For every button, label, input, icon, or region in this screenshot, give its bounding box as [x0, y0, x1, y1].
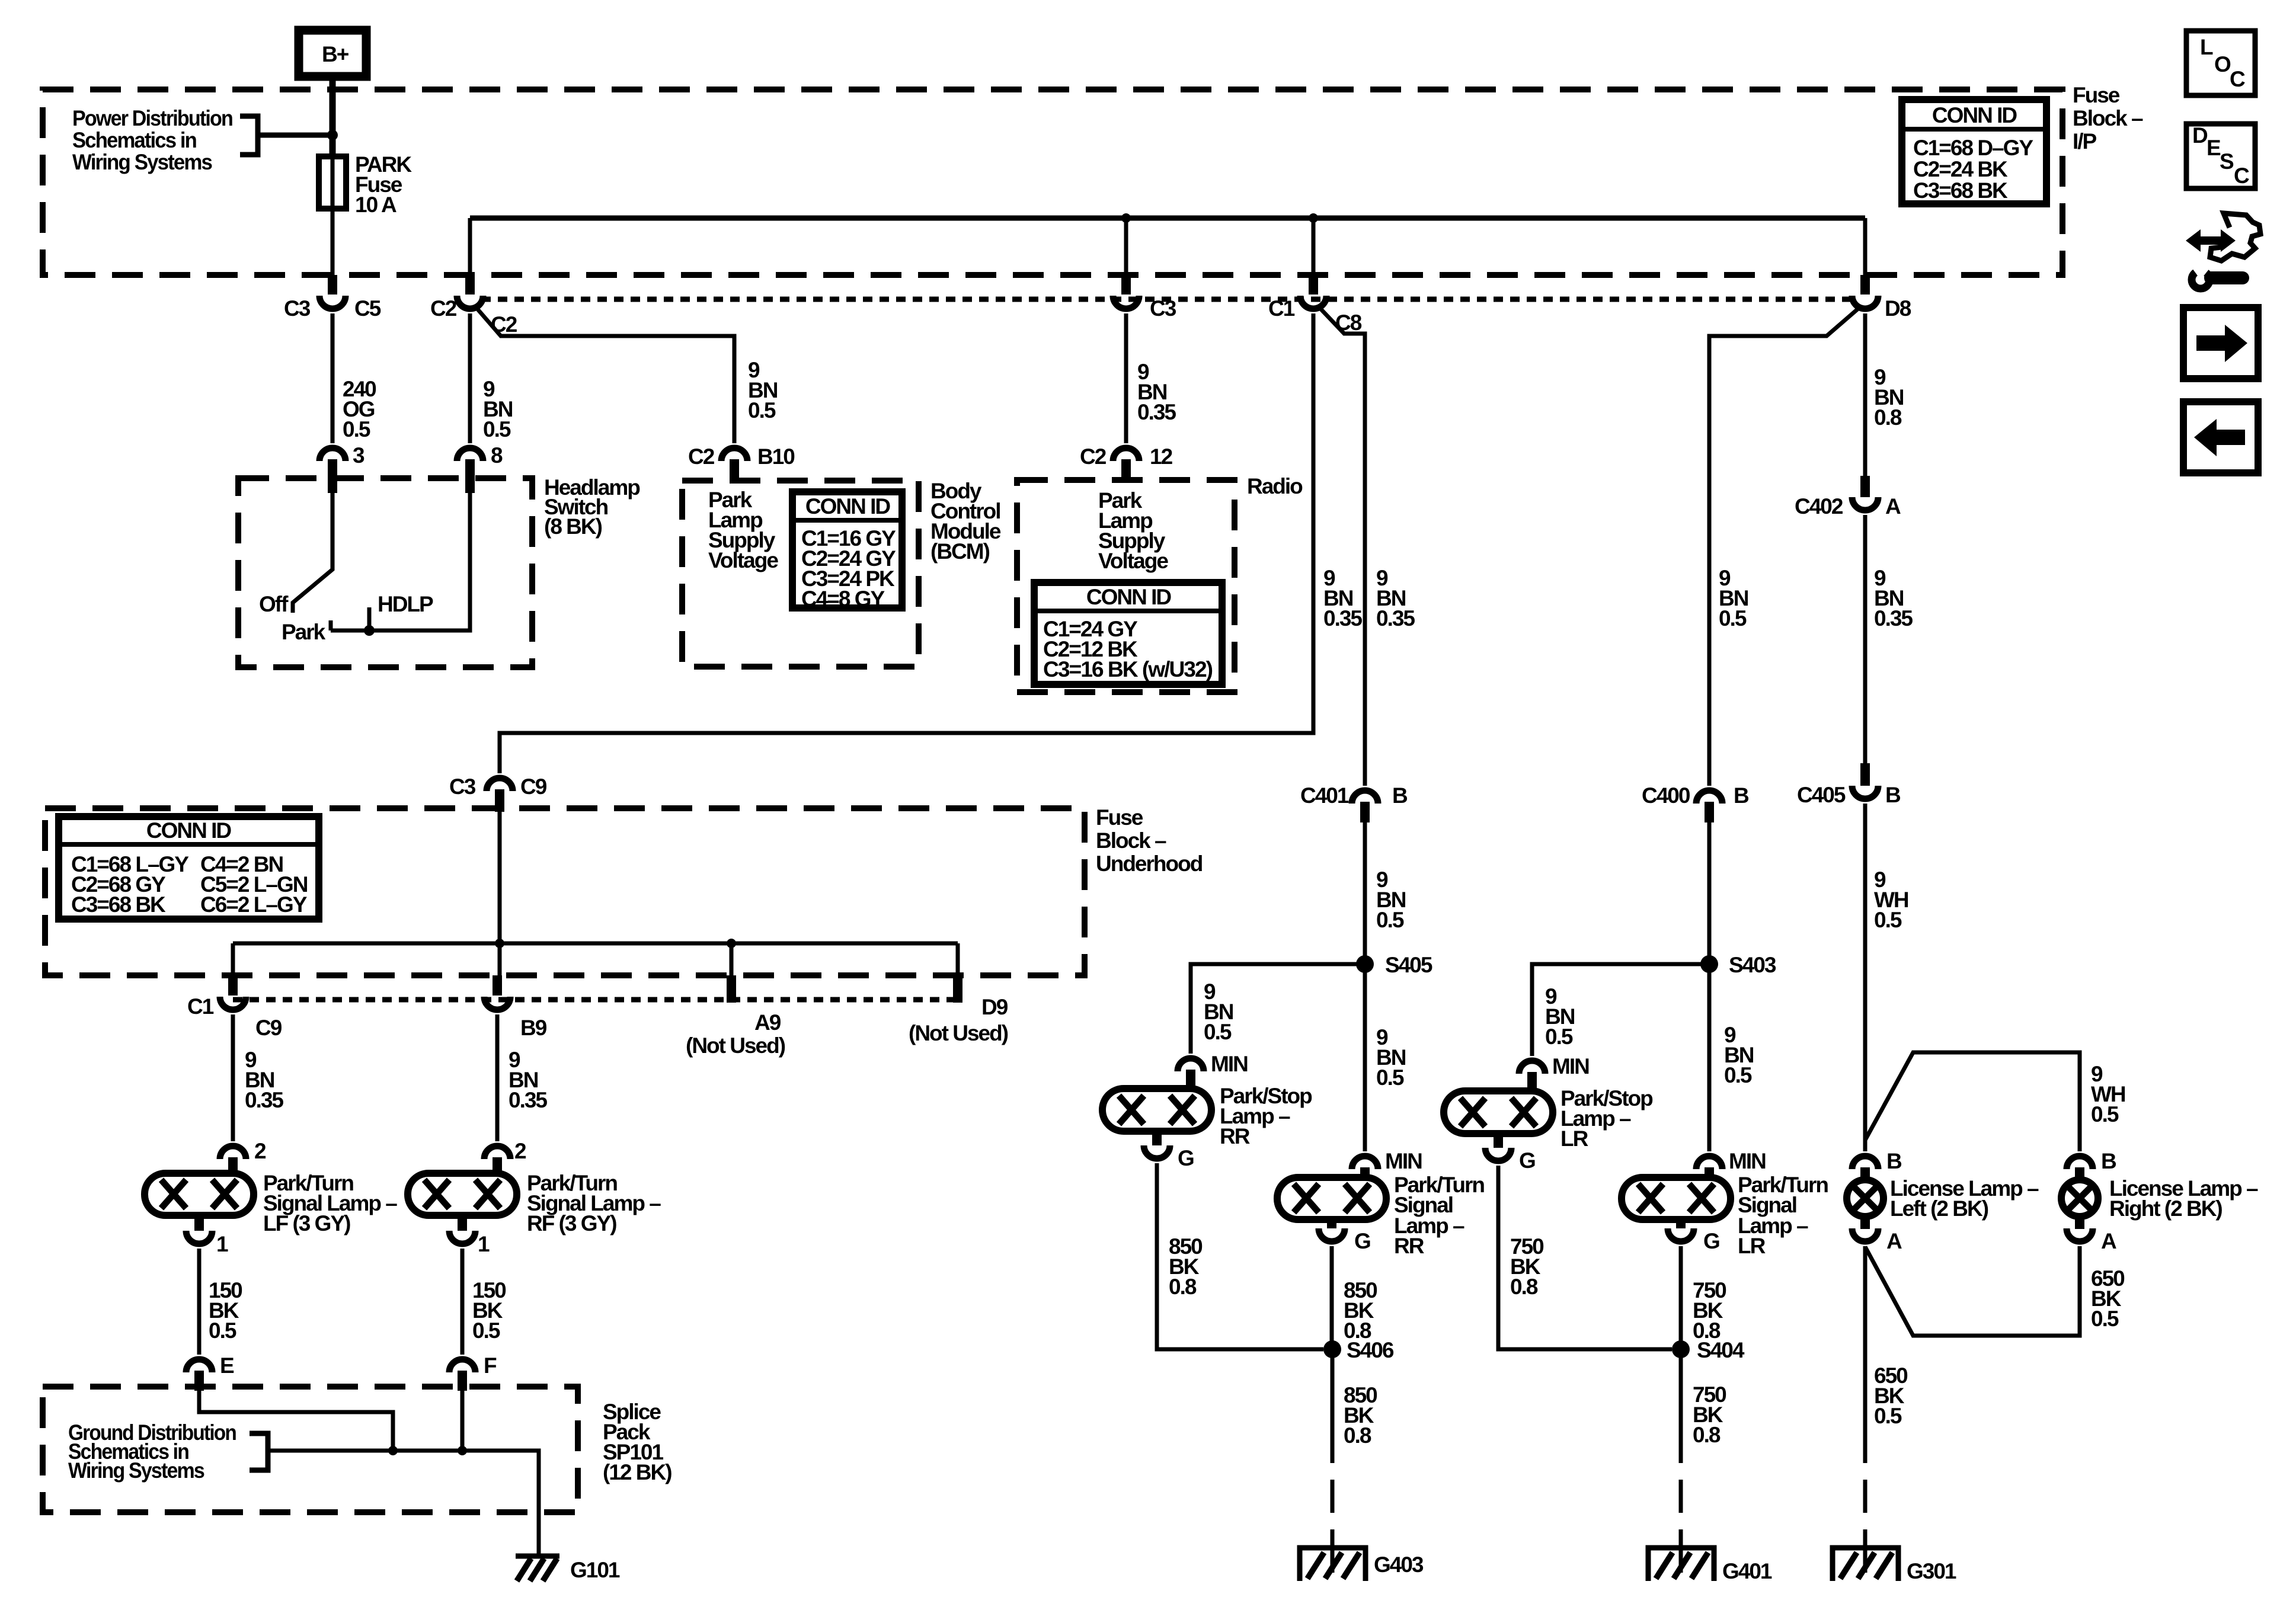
- connector D8 rear feed: [1852, 275, 1911, 321]
- connector B license right: [2067, 1149, 2116, 1182]
- svg-text:Radio: Radio: [1247, 474, 1303, 498]
- value label 9 BN 0.5 BCM branch: [748, 358, 778, 422]
- value label 850 BK 0.8 RR turn: [1344, 1278, 1377, 1343]
- svg-text:0.35: 0.35: [1137, 400, 1176, 424]
- value label 9 BN 0.35 C402: [1874, 566, 1913, 630]
- wire 9 BN 0.35 C3 to radio: [1124, 313, 1128, 443]
- wire D8 branch to C400: [1709, 309, 1857, 786]
- connector C2 headlamp switch feed: [430, 275, 483, 321]
- svg-text:0.35: 0.35: [245, 1088, 283, 1112]
- lamp Park/Turn Signal RF: [408, 1173, 517, 1231]
- svg-text:C: C: [2230, 67, 2245, 91]
- svg-text:0.35: 0.35: [1323, 606, 1362, 630]
- svg-text:C6=2 L–GY: C6=2 L–GY: [200, 892, 308, 917]
- svg-text:Wiring Systems: Wiring Systems: [68, 1458, 204, 1483]
- svg-text:0.5: 0.5: [1724, 1063, 1752, 1087]
- pin label C8: [1335, 311, 1362, 335]
- wire 150 BK 0.5 RF: [461, 1249, 465, 1355]
- label Splice Pack SP101 (12 BK): [603, 1400, 671, 1484]
- wire 9 BN 0.35 to RF lamp: [495, 1014, 500, 1141]
- label Off: [259, 592, 289, 616]
- wire 750 BK 0.8 LR turn to S404: [1679, 1246, 1683, 1349]
- label Park/Turn Signal Lamp RR: [1394, 1173, 1484, 1258]
- svg-text:0.5: 0.5: [2091, 1102, 2119, 1126]
- svg-text:A: A: [2101, 1229, 2116, 1253]
- svg-text:CONN ID: CONN ID: [1086, 585, 1172, 609]
- value label 9 BN 0.5 LR stop: [1545, 984, 1575, 1049]
- wire 240 OG 0.5 fuse to headlamp switch pin 3: [331, 313, 335, 443]
- connector C401/B: [1300, 783, 1408, 822]
- splice pack dashed box: [43, 1387, 578, 1512]
- svg-text:G: G: [1703, 1229, 1719, 1253]
- svg-text:O: O: [2214, 52, 2231, 76]
- value label 240 OG 0.5: [343, 377, 376, 441]
- connector G RR park/turn: [1319, 1228, 1370, 1253]
- switch contact HDLP: [367, 607, 372, 630]
- wire D8 down to C402: [1863, 313, 1868, 477]
- wire 9 BN 0.5 C2 to headlamp switch pin 8: [468, 313, 472, 443]
- connector C3/C9 underhood feed: [449, 774, 547, 812]
- svg-text:0.35: 0.35: [1376, 606, 1415, 630]
- value label 9 BN 0.5: [483, 377, 513, 441]
- svg-text:C2: C2: [430, 296, 457, 321]
- connector G LR park/stop: [1485, 1148, 1535, 1173]
- svg-text:(BCM): (BCM): [930, 539, 990, 564]
- connector MIN RR park/stop: [1178, 1052, 1248, 1089]
- label Park Lamp Supply Voltage radio: [1098, 488, 1168, 573]
- label Fuse Block - Underhood: [1096, 805, 1203, 876]
- svg-text:C2: C2: [491, 312, 517, 337]
- svg-text:S403: S403: [1729, 953, 1776, 977]
- connector pin 3 headlamp switch: [319, 443, 364, 493]
- label Body Control Module (BCM): [930, 479, 1001, 564]
- svg-text:C1: C1: [187, 994, 214, 1019]
- value label 9 BN 0.35 right: [1376, 566, 1415, 630]
- connector C2/B10 BCM: [688, 444, 795, 483]
- label Park/Stop Lamp LR: [1560, 1086, 1653, 1151]
- pin label C2 BCM branch: [491, 312, 517, 337]
- connector F splice pack: [449, 1353, 497, 1391]
- svg-text:RF (3 GY): RF (3 GY): [527, 1211, 616, 1235]
- label HDLP: [378, 592, 433, 616]
- label License Lamp Right: [2109, 1176, 2258, 1221]
- connector C1/C9 underhood LF out: [187, 975, 282, 1040]
- wire C405 to license lamps: [1863, 804, 1868, 1151]
- connector G LR park/turn: [1668, 1228, 1719, 1253]
- value label 150 BK 0.5 LF: [209, 1278, 242, 1343]
- svg-text:RR: RR: [1220, 1124, 1250, 1148]
- CONN ID table BCM: [792, 492, 902, 611]
- connector B license left: [1852, 1149, 1902, 1182]
- svg-text:C3: C3: [1150, 296, 1176, 321]
- svg-text:(Not Used): (Not Used): [686, 1033, 785, 1058]
- svg-text:C3=16 BK (w/U32): C3=16 BK (w/U32): [1043, 657, 1213, 681]
- BCM dashed box: [682, 481, 919, 667]
- svg-text:MIN: MIN: [1729, 1149, 1766, 1173]
- value label 9 BN 0.5 RR stop: [1204, 980, 1233, 1044]
- svg-text:C4=8 GY: C4=8 GY: [801, 587, 885, 611]
- svg-text:0.5: 0.5: [472, 1318, 500, 1343]
- svg-text:CONN ID: CONN ID: [146, 818, 232, 843]
- wire 850 BK 0.8 RR turn to S406: [1330, 1246, 1334, 1349]
- radio dashed box: [1017, 480, 1235, 692]
- svg-text:8: 8: [491, 443, 503, 468]
- connector D9 not used: [909, 975, 1008, 1045]
- lamp License Left: [1847, 1180, 1884, 1229]
- svg-text:(8 BK): (8 BK): [544, 514, 602, 539]
- svg-text:C2: C2: [1080, 444, 1107, 469]
- svg-text:B: B: [1734, 783, 1749, 808]
- svg-text:0.8: 0.8: [1693, 1423, 1721, 1447]
- wire callout bracket ground distribution: [250, 1433, 268, 1470]
- svg-text:MIN: MIN: [1552, 1054, 1589, 1078]
- label Park/Turn Signal Lamp LF: [263, 1171, 397, 1235]
- svg-text:0.8: 0.8: [1874, 405, 1902, 430]
- connector pin 2 RF lamp: [484, 1139, 526, 1175]
- node junction on B+ wire: [327, 130, 338, 140]
- icon box LOC: [2186, 31, 2255, 95]
- svg-text:Block –: Block –: [1096, 828, 1166, 853]
- svg-text:S404: S404: [1697, 1338, 1745, 1362]
- ground G401: [1648, 1548, 1772, 1583]
- svg-text:Wiring Systems: Wiring Systems: [72, 150, 212, 174]
- connector A license left: [1852, 1228, 1902, 1253]
- node splice S405: [1356, 953, 1432, 977]
- svg-text:CONN ID: CONN ID: [1932, 103, 2017, 127]
- headlamp switch dashed box: [238, 478, 532, 667]
- svg-text:0.5: 0.5: [1874, 1404, 1902, 1428]
- wire C8 branch down to C401: [1321, 309, 1365, 786]
- svg-text:E: E: [2207, 136, 2221, 160]
- lamp Park/Stop LR: [1444, 1091, 1553, 1148]
- wire 150 BK 0.5 LF: [197, 1249, 202, 1355]
- svg-text:LR: LR: [1560, 1126, 1588, 1151]
- svg-text:D: D: [2192, 123, 2208, 148]
- fuse block underhood dashed box: [45, 808, 1085, 975]
- value label 850 BK 0.8 RR stop: [1169, 1234, 1203, 1299]
- connector E splice pack: [186, 1353, 234, 1391]
- svg-text:C2=24 BK: C2=24 BK: [1913, 157, 2008, 181]
- value label 650 BK 0.5 ground: [1874, 1363, 1908, 1428]
- label Power Distribution Schematics in Wiring Systems: [72, 106, 232, 174]
- svg-text:C3: C3: [449, 774, 476, 799]
- node splice S404: [1672, 1338, 1745, 1362]
- svg-text:B: B: [1885, 783, 1901, 807]
- value label 750 BK 0.8 LR turn: [1693, 1278, 1726, 1343]
- node bus junction above radio feed: [1121, 213, 1131, 223]
- icon box DESC: [2186, 123, 2255, 188]
- switch arm pin 3 to Off: [293, 493, 332, 613]
- svg-text:Off: Off: [259, 592, 289, 616]
- svg-text:B10: B10: [757, 444, 795, 469]
- value label 9 BN 0.5 RR turn: [1376, 1025, 1406, 1090]
- svg-text:G101: G101: [570, 1558, 620, 1582]
- connector G RR park/stop: [1144, 1145, 1194, 1170]
- value label 9 WH 0.5 right: [2091, 1062, 2125, 1126]
- label License Lamp Left: [1890, 1176, 2039, 1221]
- svg-text:Right (2 BK): Right (2 BK): [2109, 1196, 2222, 1221]
- dotted harness line underhood: [233, 997, 960, 1003]
- connector B9 underhood RF out: [484, 975, 547, 1040]
- node bus junction above BCM feed: [1309, 213, 1318, 223]
- svg-text:0.8: 0.8: [1169, 1275, 1197, 1299]
- label Ground Distribution Schematics in Wiring Systems: [68, 1420, 236, 1483]
- value label 850 BK 0.8 ground: [1344, 1383, 1377, 1448]
- wire S404 to G401: [1679, 1349, 1683, 1573]
- svg-text:G401: G401: [1722, 1559, 1772, 1583]
- value label 9 WH 0.5: [1874, 868, 1908, 932]
- connector C405/B: [1797, 763, 1901, 807]
- label Park/Turn Signal Lamp LR: [1738, 1173, 1828, 1258]
- svg-text:LR: LR: [1738, 1234, 1766, 1258]
- svg-text:0.5: 0.5: [1204, 1020, 1232, 1044]
- wire S405 to RR park/stop lamp: [1191, 964, 1365, 1054]
- svg-text:B: B: [1392, 783, 1408, 808]
- wire C1 down to underhood fuse block: [500, 313, 1313, 773]
- svg-text:C405: C405: [1797, 783, 1846, 807]
- svg-text:C2: C2: [688, 444, 715, 469]
- connector C3/C5 fuse output: [284, 275, 381, 321]
- wire S406 to G403: [1331, 1349, 1335, 1573]
- value label 9 BN 0.5 LR turn: [1724, 1023, 1754, 1087]
- wire ground bus to G101: [268, 1451, 539, 1556]
- connector A9 not used: [686, 975, 785, 1058]
- node junction E ground bus: [388, 1446, 398, 1455]
- wire bus in fuse block: [470, 218, 1865, 275]
- svg-text:B: B: [2101, 1149, 2116, 1173]
- connector A license right: [2067, 1228, 2116, 1253]
- connector C1 BCM/C8 feed: [1268, 275, 1326, 321]
- lamp Park/Turn Signal RR: [1277, 1177, 1386, 1228]
- lamp Park/Stop RR: [1102, 1089, 1211, 1145]
- svg-text:L: L: [2200, 35, 2213, 59]
- svg-text:1: 1: [216, 1232, 228, 1256]
- svg-text:C9: C9: [520, 774, 547, 799]
- svg-text:C3=68 BK: C3=68 BK: [71, 892, 166, 917]
- wire Park contact to pin 8: [331, 493, 470, 630]
- wire C401 to S405: [1363, 822, 1367, 1151]
- svg-text:0.8: 0.8: [1510, 1275, 1538, 1299]
- svg-text:CONN ID: CONN ID: [805, 494, 891, 518]
- svg-text:MIN: MIN: [1211, 1052, 1248, 1076]
- node junction S at C9 column: [495, 939, 504, 948]
- label Headlamp Switch (8 BK): [544, 475, 640, 539]
- icon service wrench with arrows: [2186, 213, 2260, 289]
- svg-text:0.35: 0.35: [509, 1088, 547, 1112]
- label Park/Turn Signal Lamp RF: [527, 1171, 661, 1235]
- label Park: [282, 620, 326, 644]
- svg-text:Left (2 BK): Left (2 BK): [1890, 1196, 1988, 1221]
- svg-text:(Not Used): (Not Used): [909, 1021, 1008, 1045]
- svg-text:C401: C401: [1300, 783, 1349, 808]
- wire underhood horizontal distribution: [233, 943, 958, 975]
- value label 750 BK 0.8 LR stop: [1510, 1234, 1544, 1299]
- connector pin 2 LF lamp: [220, 1139, 266, 1175]
- value label 9 BN 0.35 RF: [509, 1048, 547, 1112]
- svg-text:B: B: [1886, 1149, 1902, 1173]
- svg-text:0.5: 0.5: [343, 417, 370, 441]
- svg-text:Fuse: Fuse: [1096, 805, 1143, 830]
- svg-text:F: F: [484, 1353, 497, 1378]
- svg-text:RR: RR: [1394, 1234, 1424, 1258]
- wire C400 to S403: [1707, 822, 1712, 1151]
- svg-text:Park: Park: [282, 620, 326, 644]
- wire license left to G301: [1863, 1246, 1868, 1573]
- svg-text:C3: C3: [284, 296, 311, 321]
- svg-text:2: 2: [514, 1139, 526, 1163]
- svg-text:0.5: 0.5: [1545, 1025, 1573, 1049]
- svg-text:C5: C5: [354, 296, 381, 321]
- svg-text:G: G: [1178, 1146, 1194, 1170]
- icon box next arrow: [2183, 308, 2258, 379]
- svg-text:Block –: Block –: [2073, 106, 2143, 130]
- svg-text:10 A: 10 A: [355, 193, 396, 217]
- connector pin 1 RF lamp: [449, 1231, 490, 1256]
- value label 9 BN 0.5 C401: [1376, 868, 1406, 932]
- svg-text:G301: G301: [1907, 1559, 1956, 1583]
- svg-text:D9: D9: [981, 995, 1008, 1019]
- svg-text:G: G: [1354, 1229, 1370, 1253]
- wire C2 branch to BCM B10: [478, 309, 734, 443]
- svg-text:G: G: [1519, 1148, 1535, 1173]
- node junction F ground bus: [458, 1446, 467, 1455]
- svg-text:Power Distribution: Power Distribution: [72, 106, 232, 130]
- svg-text:MIN: MIN: [1385, 1149, 1422, 1173]
- wire callout bracket to B+ wire: [240, 116, 329, 155]
- lamp License Right: [2061, 1180, 2098, 1229]
- svg-text:B+: B+: [322, 42, 349, 66]
- wire 750 BK 0.8 LR stop to S404: [1498, 1166, 1672, 1349]
- connector MIN RR park/turn: [1352, 1149, 1422, 1179]
- node junction at A9 column: [727, 939, 736, 948]
- fuse PARK Fuse 10 A: [319, 152, 412, 217]
- connector C400/B: [1642, 783, 1749, 822]
- svg-text:C400: C400: [1642, 783, 1690, 808]
- fuse block I/P dashed box: [43, 89, 2062, 275]
- svg-text:1: 1: [478, 1232, 490, 1256]
- svg-text:S: S: [2220, 149, 2234, 174]
- svg-text:C: C: [2234, 164, 2249, 188]
- svg-text:G403: G403: [1374, 1553, 1424, 1577]
- node splice S406: [1323, 1338, 1394, 1362]
- lamp Park/Turn Signal LR: [1622, 1177, 1731, 1228]
- svg-text:0.5: 0.5: [1874, 908, 1902, 932]
- value label 9 BN 0.35 radio: [1137, 360, 1176, 424]
- label Radio: [1247, 474, 1303, 498]
- value label 150 BK 0.5 RF: [472, 1278, 506, 1343]
- svg-text:B9: B9: [520, 1016, 547, 1040]
- svg-text:(12 BK): (12 BK): [603, 1460, 671, 1484]
- svg-text:A: A: [1885, 494, 1901, 518]
- svg-text:12: 12: [1150, 444, 1173, 469]
- svg-text:0.5: 0.5: [1376, 1065, 1404, 1090]
- svg-text:LF (3 GY): LF (3 GY): [263, 1211, 350, 1235]
- value label 9 BN 0.35 left: [1323, 566, 1362, 630]
- svg-text:2: 2: [254, 1139, 266, 1163]
- icon box back arrow: [2183, 402, 2258, 473]
- value label 9 BN 0.35 LF: [245, 1048, 283, 1112]
- svg-text:C3=68 BK: C3=68 BK: [1913, 178, 2008, 203]
- wire underhood vertical C3/C9 to B9: [498, 812, 502, 975]
- connector pin 8 headlamp switch: [457, 443, 503, 493]
- connector pin 1 LF lamp: [186, 1231, 228, 1256]
- wire E to ground bus: [199, 1391, 393, 1451]
- svg-text:0.5: 0.5: [209, 1318, 236, 1343]
- power symbol B+: [299, 30, 366, 76]
- wire branch to license lamp right: [1865, 1052, 2080, 1151]
- label Park/Stop Lamp RR: [1220, 1084, 1312, 1148]
- node splice S403: [1700, 953, 1776, 977]
- wire B+ to fuse: [330, 76, 336, 275]
- connector C2/12 radio: [1080, 444, 1173, 483]
- svg-text:C402: C402: [1795, 494, 1843, 518]
- CONN ID table underhood: [59, 817, 319, 919]
- svg-text:C1=68 D–GY: C1=68 D–GY: [1913, 136, 2033, 160]
- ground G301: [1833, 1548, 1956, 1583]
- lamp Park/Turn Signal LF: [145, 1173, 254, 1231]
- svg-text:0.35: 0.35: [1874, 606, 1913, 630]
- svg-text:0.5: 0.5: [1376, 908, 1404, 932]
- svg-text:D8: D8: [1885, 296, 1911, 321]
- value label 750 BK 0.8 ground: [1693, 1382, 1726, 1447]
- wire F to ground bus: [461, 1391, 465, 1451]
- ground G403: [1300, 1548, 1424, 1581]
- wire license right A to join: [1865, 1246, 2080, 1336]
- connector MIN LR park/stop: [1519, 1054, 1589, 1091]
- svg-text:Fuse: Fuse: [2073, 83, 2120, 107]
- label Fuse Block - I/P: [2073, 83, 2143, 153]
- svg-text:I/P: I/P: [2073, 129, 2097, 153]
- node junction HDLP: [364, 625, 375, 636]
- wire 850 BK 0.8 RR stop to S406: [1157, 1163, 1323, 1349]
- svg-text:C9: C9: [255, 1016, 282, 1040]
- CONN ID table fuse block I/P: [1902, 100, 2046, 204]
- svg-text:0.5: 0.5: [748, 398, 776, 422]
- svg-text:C1: C1: [1268, 296, 1295, 321]
- connector MIN LR park/turn: [1696, 1149, 1766, 1179]
- ground G101: [516, 1556, 620, 1582]
- wire 9 BN 0.35 to LF lamp: [231, 1014, 235, 1141]
- value label 9 BN 0.8: [1874, 365, 1904, 430]
- svg-text:0.8: 0.8: [1344, 1423, 1371, 1448]
- switch contact Park: [329, 620, 333, 630]
- value label 9 BN 0.5 C400: [1719, 566, 1748, 630]
- svg-text:A: A: [1886, 1229, 1902, 1253]
- connector C402/A: [1795, 476, 1901, 518]
- svg-text:0.5: 0.5: [1719, 606, 1747, 630]
- svg-text:Voltage: Voltage: [1098, 549, 1168, 573]
- svg-text:S405: S405: [1385, 953, 1432, 977]
- CONN ID table radio: [1034, 582, 1222, 684]
- connector C3 radio feed: [1113, 275, 1176, 321]
- svg-text:Voltage: Voltage: [708, 548, 778, 572]
- svg-text:A9: A9: [754, 1010, 781, 1035]
- wire S403 to LR park/stop lamp: [1532, 964, 1709, 1056]
- dotted harness line I/P: [481, 297, 1854, 302]
- value label 650 BK 0.5 right: [2091, 1266, 2125, 1331]
- label Park Lamp Supply Voltage BCM: [708, 488, 778, 572]
- svg-text:S406: S406: [1347, 1338, 1394, 1362]
- svg-text:Schematics in: Schematics in: [72, 128, 196, 152]
- svg-text:E: E: [220, 1353, 234, 1378]
- svg-text:0.5: 0.5: [2091, 1307, 2119, 1331]
- svg-text:Underhood: Underhood: [1096, 852, 1203, 876]
- svg-text:3: 3: [353, 443, 364, 468]
- wire C402 to C405: [1863, 515, 1868, 763]
- svg-text:0.5: 0.5: [483, 417, 511, 441]
- svg-text:HDLP: HDLP: [378, 592, 433, 616]
